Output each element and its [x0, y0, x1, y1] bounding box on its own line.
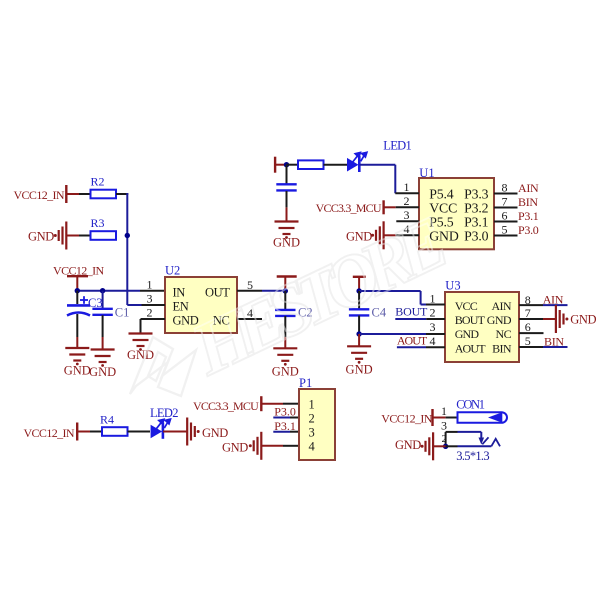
svg-text:VCC12_IN: VCC12_IN — [13, 188, 64, 202]
svg-text:P1: P1 — [299, 376, 312, 390]
pin 2 — [426, 318, 445, 320]
wire OUT to C2 node — [262, 290, 285, 292]
power port tick — [260, 396, 262, 411]
wire VCC12 rail to U2 pin 1 — [77, 290, 140, 292]
ground GND (under C4) — [347, 346, 371, 359]
svg-text:2: 2 — [404, 194, 410, 208]
ground GND (bypass cap) — [275, 222, 299, 235]
ground GND (under C3) — [65, 348, 89, 361]
svg-text:P3.3: P3.3 — [464, 186, 488, 201]
ground GND (U2 pin2) — [129, 334, 153, 347]
wire VCC12_IN to R2 — [66, 193, 79, 195]
svg-text:2: 2 — [430, 306, 436, 320]
svg-text:4: 4 — [430, 334, 436, 348]
svg-text:7: 7 — [525, 306, 531, 320]
svg-text:LED1: LED1 — [383, 138, 411, 152]
svg-text:6: 6 — [502, 208, 508, 222]
LED LED1 — [347, 158, 359, 172]
svg-text:BIN: BIN — [544, 335, 564, 349]
svg-text:2: 2 — [309, 412, 315, 426]
pin 1 — [395, 192, 419, 194]
svg-text:U2: U2 — [165, 263, 180, 277]
jack sleeve spring — [491, 439, 500, 447]
svg-text:1: 1 — [147, 278, 153, 292]
svg-text:1: 1 — [309, 398, 315, 412]
ground GND (under C1) — [91, 350, 115, 363]
svg-text:GND: GND — [28, 229, 54, 243]
watermark under-layer — [130, 202, 458, 396]
svg-text:LED2: LED2 — [150, 406, 178, 420]
pin 3 — [396, 220, 419, 222]
wire divider vertical — [126, 193, 128, 305]
svg-text:VCC: VCC — [429, 200, 457, 215]
pin 6 — [519, 332, 544, 334]
svg-text:BOUT: BOUT — [395, 305, 428, 319]
pin 8 — [494, 193, 518, 195]
pin 8 — [519, 304, 543, 306]
svg-text:3: 3 — [430, 320, 436, 334]
capacitor C3 (polarized) — [76, 291, 78, 304]
svg-text:CON1: CON1 — [456, 398, 484, 412]
svg-text:IN: IN — [173, 286, 186, 300]
pin 1 — [426, 304, 445, 306]
pin 3 — [142, 304, 166, 306]
svg-text:7: 7 — [502, 194, 508, 208]
pin 2 — [384, 206, 396, 208]
watermark overlay — [130, 202, 458, 396]
wire pin7 to ground — [543, 318, 556, 320]
svg-text:5: 5 — [502, 222, 508, 236]
pin 5 OUT — [237, 290, 262, 292]
svg-text:GND: GND — [487, 313, 512, 327]
svg-text:AIN: AIN — [543, 293, 564, 307]
svg-text:3.5*1.3: 3.5*1.3 — [456, 449, 489, 463]
ground GND (U3 pin7) — [556, 305, 564, 333]
svg-text:6: 6 — [525, 320, 531, 334]
svg-text:P5.5: P5.5 — [429, 214, 453, 229]
resistor R3 — [91, 231, 117, 240]
pin 4 — [426, 346, 445, 348]
svg-text:AIN: AIN — [518, 181, 539, 195]
resistor (LED1 series) — [298, 160, 324, 169]
svg-text:5: 5 — [525, 334, 531, 348]
wire R2 to divider node — [116, 193, 128, 195]
pin 7 — [519, 318, 543, 320]
svg-text:GND: GND — [272, 364, 299, 378]
wire junction to resistor — [287, 164, 299, 166]
svg-text:VCC3.3_MCU: VCC3.3_MCU — [316, 201, 382, 215]
pin 5 — [519, 346, 543, 348]
wire resistor to LED1 — [324, 164, 348, 166]
svg-text:P3.2: P3.2 — [464, 200, 488, 215]
svg-text:GND: GND — [222, 441, 248, 455]
power port tick — [76, 423, 78, 441]
svg-text:GND: GND — [395, 438, 421, 452]
jack switch contact — [480, 432, 482, 439]
IC U3 body — [445, 292, 519, 362]
wire EN net to U2 pin 3 — [127, 304, 141, 306]
svg-text:P3.0: P3.0 — [518, 223, 539, 237]
node junction C4 top — [356, 288, 361, 293]
wire AOUT to U3 pin4 — [397, 346, 426, 348]
svg-text:GND: GND — [64, 364, 91, 378]
capacitor C4 — [358, 291, 360, 309]
node divider junction — [125, 233, 130, 238]
wire to P1 pin4 — [261, 445, 283, 447]
node rail junction at C3 — [75, 288, 80, 293]
svg-text:8: 8 — [502, 180, 508, 194]
node rail junction at C1 — [100, 288, 105, 293]
ground GND (under C2) — [273, 348, 297, 361]
svg-text:P3.0: P3.0 — [464, 228, 488, 243]
svg-text:1: 1 — [441, 404, 447, 418]
svg-text:3: 3 — [309, 426, 315, 440]
svg-text:BIN: BIN — [492, 341, 512, 355]
capacitor C2 — [284, 291, 286, 309]
svg-text:GND: GND — [570, 313, 596, 327]
svg-text:R2: R2 — [91, 175, 105, 189]
power port bar (at C4) — [353, 276, 366, 278]
wire BOUT to U3 pin2 — [395, 318, 426, 320]
svg-text:R3: R3 — [91, 216, 105, 230]
svg-text:GND: GND — [346, 362, 373, 376]
power port bar (3.3V) at C2 — [277, 275, 297, 277]
wire to R4 — [77, 431, 90, 433]
svg-text:AIN: AIN — [491, 299, 511, 313]
capacitor (LED1 feed bypass) — [286, 165, 288, 184]
svg-text:NC: NC — [496, 327, 512, 341]
svg-text:GND: GND — [89, 365, 116, 379]
svg-text:P3.1: P3.1 — [464, 214, 488, 229]
wire tick to junction — [275, 164, 286, 166]
power port tick (LED1 feed) — [274, 157, 276, 173]
svg-text:1: 1 — [430, 291, 436, 305]
pin 6 — [494, 221, 518, 223]
svg-text:BOUT: BOUT — [455, 313, 486, 327]
capacitor C1 — [102, 291, 104, 309]
wire LED2 to ground — [163, 431, 187, 433]
svg-text:P3.1: P3.1 — [274, 419, 296, 433]
wire to P1 pin1 — [261, 403, 283, 405]
power port tick VCC12_IN — [65, 185, 67, 203]
svg-text:BIN: BIN — [518, 195, 538, 209]
ground GND (LED2) — [187, 418, 195, 446]
pin 2 — [141, 318, 166, 320]
wire R4 to LED2 — [128, 431, 151, 433]
net label AIN / wire — [543, 304, 568, 306]
pin 5 — [494, 235, 518, 237]
svg-text:2: 2 — [147, 306, 153, 320]
node junction C4 bottom — [356, 331, 361, 336]
pin 7 — [494, 207, 518, 209]
resistor R4 — [102, 427, 128, 436]
svg-text:1: 1 — [404, 180, 410, 194]
svg-text:P5.4: P5.4 — [429, 186, 453, 201]
svg-text:C1: C1 — [115, 305, 130, 319]
svg-text:VCC: VCC — [455, 299, 478, 313]
svg-text:U1: U1 — [419, 166, 434, 180]
pin 4 — [384, 234, 396, 236]
svg-text:GND: GND — [429, 228, 459, 243]
wire LED1 to U1 pin 1 — [360, 164, 396, 166]
svg-text:GND: GND — [455, 327, 480, 341]
svg-text:VCC12_IN: VCC12_IN — [23, 426, 74, 440]
svg-text:VCC3.3_MCU: VCC3.3_MCU — [193, 399, 259, 413]
svg-text:EN: EN — [173, 300, 189, 314]
svg-text:VCC12_IN: VCC12_IN — [381, 412, 432, 426]
svg-text:3: 3 — [147, 292, 153, 306]
power port tick — [431, 409, 433, 426]
pin 4 NC — [237, 318, 262, 320]
svg-text:R4: R4 — [100, 413, 114, 427]
power port bar VCC12_IN — [67, 275, 88, 277]
svg-text:GND: GND — [273, 236, 300, 250]
op-amp U2 regulator body — [165, 277, 237, 333]
pin 1 wire — [433, 417, 446, 419]
wire C4 bottom to U3 pin3 — [359, 333, 426, 335]
svg-text:GND: GND — [202, 426, 228, 440]
power port tick VCC3.3_MCU — [382, 200, 384, 214]
svg-text:P3.1: P3.1 — [518, 209, 539, 223]
svg-text:AOUT: AOUT — [397, 333, 428, 347]
node junction OUT/C2 — [283, 288, 288, 293]
wire GND to R3 — [66, 235, 79, 237]
pin 3 — [426, 333, 445, 335]
wire U2 pin2 to ground — [140, 319, 142, 334]
svg-text:AOUT: AOUT — [455, 341, 487, 355]
node junction pin2/GND — [443, 444, 448, 449]
svg-text:4: 4 — [309, 440, 316, 454]
connector P1 body — [299, 389, 335, 460]
svg-text:3: 3 — [441, 419, 447, 433]
resistor R2 — [91, 190, 117, 199]
svg-text:8: 8 — [525, 293, 531, 307]
IC U1 body — [419, 178, 494, 249]
wire GND to sleeve — [433, 445, 446, 447]
svg-text:GND: GND — [127, 348, 154, 362]
LED LED2 — [151, 425, 163, 439]
wire C4 to U3 pin1 — [359, 290, 421, 292]
net label BIN / wire — [543, 346, 568, 348]
node junction LED1 feed — [284, 162, 289, 167]
svg-text:HESTORE: HESTORE — [179, 202, 458, 392]
